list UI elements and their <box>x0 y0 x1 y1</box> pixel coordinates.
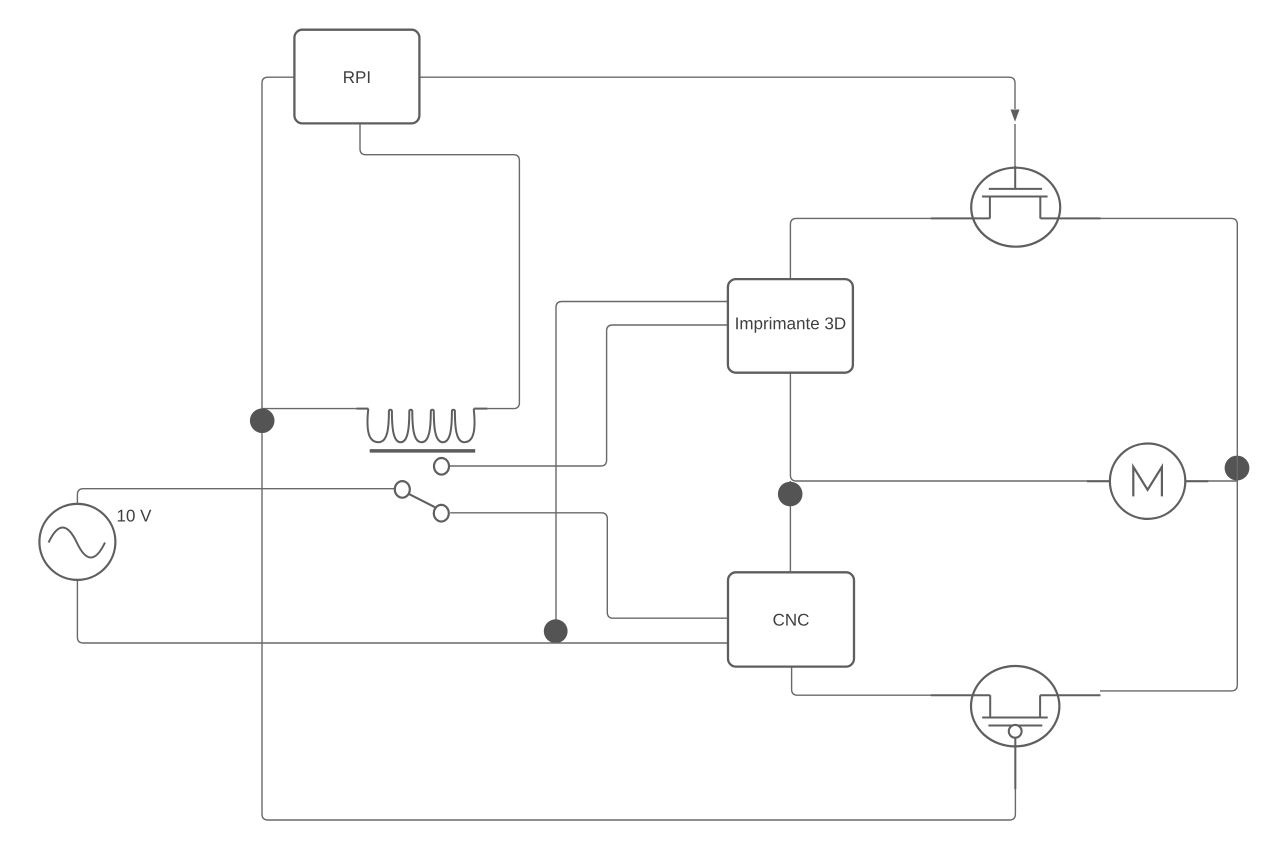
wire: relay contact to Imprimante 3D left upper <box>450 325 728 466</box>
wire: gate segment below arrow <box>1014 124 1016 168</box>
wire: AC source bottom to CNC left lower <box>77 580 728 643</box>
node: junction dot Imprimante/CNC/motor <box>778 482 803 507</box>
wire: RPI left to bottom rail to Q2 gate <box>262 77 1015 820</box>
wire: AC source top to switch pole <box>77 489 394 504</box>
switch S1 pole circle <box>395 481 410 498</box>
motor terminals <box>1087 480 1208 482</box>
wire: RPI bottom to relay coil right <box>360 123 519 408</box>
box Imprimante 3D <box>728 279 853 373</box>
box RPI <box>294 30 419 124</box>
wire: CNC bottom to Q2 source <box>792 667 932 696</box>
relay coil K1 <box>367 409 474 443</box>
wire: junction down to CNC top <box>789 481 791 572</box>
node: junction dot right rail / motor <box>1225 456 1250 481</box>
Q2 legs <box>990 695 1040 717</box>
box CNC <box>728 572 854 666</box>
arrowhead on Q1 gate wire <box>1011 110 1020 122</box>
wire: Imprimante 3D bottom to motor left <box>790 373 1110 481</box>
switch S1 blade <box>409 494 435 507</box>
Q1 legs <box>990 197 1040 219</box>
motor letter M <box>1133 467 1162 497</box>
Q1 gate line <box>1014 166 1016 189</box>
motor M1 <box>1087 444 1208 519</box>
relay coil terminals <box>357 408 488 410</box>
wire: RPI right to Q1 gate <box>419 77 1015 109</box>
wire: motor right to right rail <box>1185 480 1237 482</box>
Q2 lower bar <box>988 725 1042 727</box>
label 10 V <box>118 510 152 522</box>
Q1 gate bar <box>989 188 1042 190</box>
wire: Imprimante 3D top to Q1 source <box>790 218 932 279</box>
wire: Q1 drain right rail down to Q2 drain <box>1100 218 1237 691</box>
Q2 gate stub <box>1014 738 1016 789</box>
wire: switch throw to CNC left middle <box>450 513 728 618</box>
transistor Q1 (top MOSFET) <box>931 166 1101 247</box>
relay core bar <box>370 449 476 453</box>
node: junction dot left rail / coil <box>250 408 275 433</box>
Q1 channel bar <box>982 196 1048 198</box>
Q2 gate bubble <box>1009 725 1022 738</box>
Q1 terminals <box>931 217 1101 219</box>
Q2 terminals <box>931 694 1101 696</box>
node: junction dot on vertical at CNC feed <box>544 619 568 643</box>
relay contact circle <box>434 458 449 475</box>
switch S1 throw circle <box>434 505 449 522</box>
transistor Q2 (bottom MOSFET) <box>931 666 1101 789</box>
wire: Imprimante 3D left lower to junction above bottom AC wire <box>556 302 728 642</box>
AC source V1 <box>39 504 115 580</box>
Q2 channel bar <box>982 717 1047 719</box>
wire: relay coil left to left rail <box>262 408 369 410</box>
